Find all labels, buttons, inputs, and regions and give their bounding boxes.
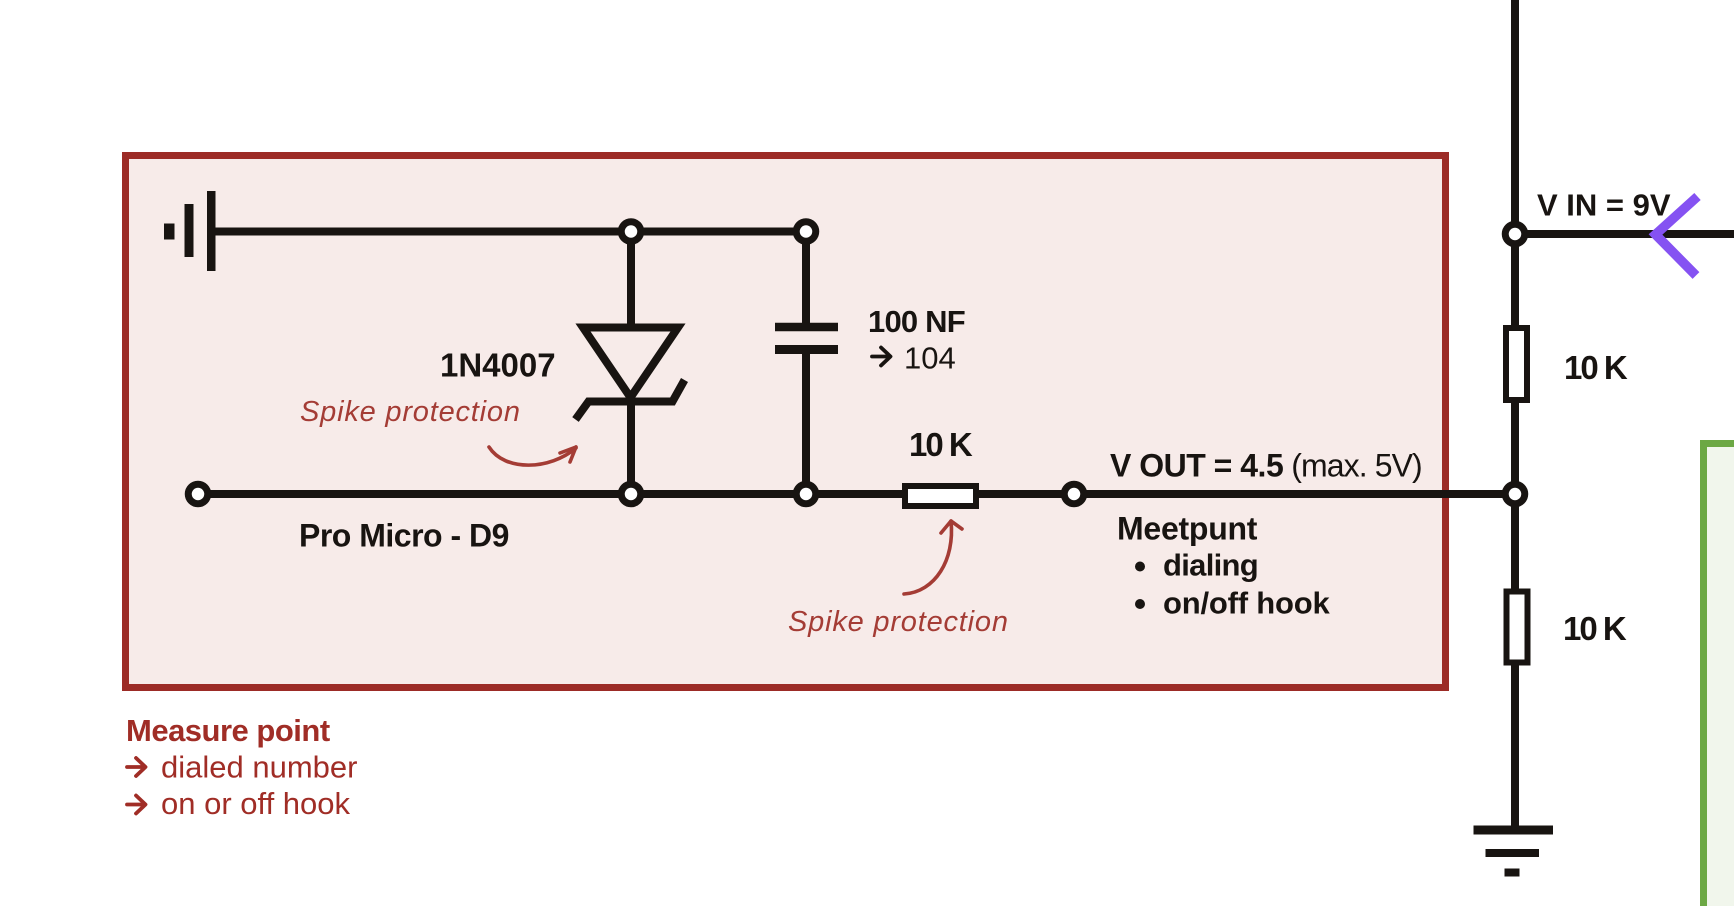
svg-text:Measure point: Measure point — [126, 713, 330, 748]
node: capacitor top — [796, 222, 816, 242]
ground (bottom right) — [1474, 830, 1554, 873]
svg-text:dialing: dialing — [1163, 548, 1258, 583]
svg-text:Spike protection: Spike protection — [300, 396, 521, 428]
node: diode top — [621, 222, 641, 242]
resistor R1 10K (series) — [905, 486, 976, 506]
node: V OUT meetpunt — [1064, 484, 1084, 504]
svg-text:dialed number: dialed number — [161, 750, 357, 785]
wire: diode cathode drop — [627, 402, 635, 495]
wire: rail between R2 and R3 — [1511, 400, 1519, 594]
annotation arrow to resistor — [904, 521, 952, 594]
wire: V IN feed — [1515, 230, 1734, 238]
svg-text:Meetpunt: Meetpunt — [1117, 511, 1258, 547]
probe arrow (purple) — [1656, 197, 1698, 276]
bullet on/off hook — [1135, 599, 1145, 609]
caption dialed number arrow — [127, 758, 146, 776]
svg-text:on or off hook: on or off hook — [161, 786, 351, 821]
svg-text:Pro Micro - D9: Pro Micro - D9 — [299, 518, 509, 554]
green region box — [1704, 444, 1734, 911]
wire: V IN rail top — [1511, 0, 1519, 328]
wire: bottom bus Pro Micro D9 to divider — [198, 490, 1515, 498]
svg-text:10 K: 10 K — [1564, 349, 1628, 386]
wire: diode anode drop — [627, 232, 635, 331]
node: capacitor bottom — [796, 484, 816, 504]
capacitor C1 bottom plate — [775, 345, 838, 354]
wire: ground to capacitor top — [211, 228, 806, 236]
svg-text:V OUT = 4.5 (max. 5V): V OUT = 4.5 (max. 5V) — [1110, 448, 1422, 484]
bullet dialing — [1135, 562, 1145, 572]
svg-text:100 NF: 100 NF — [868, 304, 965, 339]
wire: capacitor bottom lead — [802, 350, 810, 495]
diode D1 1N4007 triangle — [583, 328, 678, 398]
annotation arrow to diode — [489, 447, 576, 465]
label -> 104 arrow — [872, 348, 891, 366]
node: divider mid tap — [1505, 484, 1525, 504]
svg-text:Spike protection: Spike protection — [788, 606, 1009, 638]
svg-text:10 K: 10 K — [909, 426, 973, 463]
caption on or off hook arrow — [127, 796, 146, 814]
diode D1 cathode bar (zener style) — [576, 380, 685, 420]
svg-text:V IN = 9V: V IN = 9V — [1537, 188, 1671, 223]
measure-point region box — [126, 156, 1446, 688]
node: diode bottom — [621, 484, 641, 504]
svg-text:104: 104 — [904, 341, 956, 376]
wire: capacitor top lead — [802, 232, 810, 328]
resistor R3 10K (lower divider) — [1507, 592, 1528, 663]
wire: rail R3 to ground — [1511, 662, 1519, 830]
svg-text:10 K: 10 K — [1563, 610, 1627, 647]
node: V IN tap — [1505, 224, 1525, 244]
ground (Pro Micro GND) — [164, 191, 216, 271]
capacitor C1 top plate — [775, 323, 838, 332]
node: D9 terminal — [188, 484, 208, 504]
svg-text:on/off hook: on/off hook — [1163, 586, 1330, 621]
resistor R2 10K (upper divider) — [1506, 328, 1527, 400]
svg-text:1N4007: 1N4007 — [440, 347, 556, 384]
